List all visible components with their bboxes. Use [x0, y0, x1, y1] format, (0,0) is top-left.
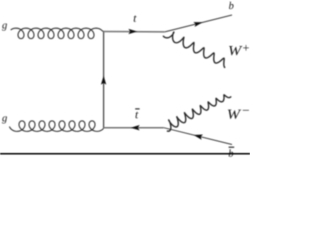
wire: bbar quark line: [164, 128, 232, 145]
arrowhead on b line: [193, 22, 202, 27]
label g (top): [2, 23, 7, 30]
wire: t quark line: [104, 31, 165, 33]
label t: [134, 15, 137, 22]
overbar of tbar: [135, 108, 139, 110]
superscript - of W-: [243, 109, 249, 112]
wire: vertical top-quark propagator: [103, 32, 105, 128]
gluon g2 (bottom incoming, curly line): [9, 121, 103, 132]
superscript + of W+: [243, 45, 249, 51]
label bbar: [229, 149, 234, 156]
boson W+ (wavy line): [163, 32, 225, 68]
wire: b quark line: [165, 15, 232, 32]
bottom frame rule: [0, 153, 250, 155]
arrowhead on bbar line: [194, 135, 203, 140]
boson W- (wavy line): [167, 95, 231, 131]
label W of W+: [229, 46, 242, 55]
overbar of bbar: [229, 146, 235, 148]
arrowhead on t line: [128, 29, 137, 34]
arrowhead on vertical propagator: [101, 76, 106, 85]
arrowhead on tbar line: [131, 125, 140, 130]
label tbar: [136, 112, 139, 119]
wire: tbar quark line: [104, 127, 164, 129]
label W of W-: [228, 110, 241, 119]
gluon g1 (top incoming, curly line): [11, 28, 104, 38]
label g (bottom): [2, 116, 7, 123]
label b: [229, 2, 234, 9]
